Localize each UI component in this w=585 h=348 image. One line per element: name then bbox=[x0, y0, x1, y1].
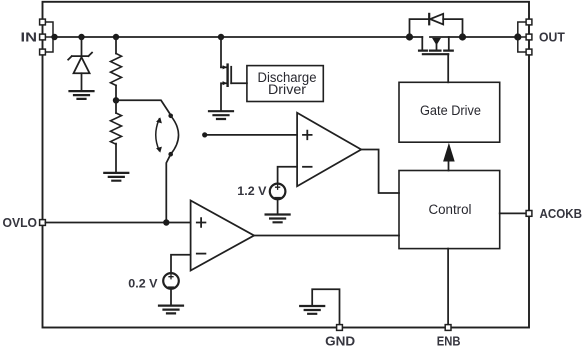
svg-text:ENB: ENB bbox=[437, 334, 461, 348]
label 0.2 V bbox=[128, 276, 158, 290]
svg-text:1.2 V: 1.2 V bbox=[237, 184, 267, 198]
arrow Control to Gate Drive bbox=[443, 143, 455, 171]
node divider top bbox=[113, 34, 119, 40]
svg-text:Driver: Driver bbox=[268, 82, 307, 97]
wire GND bbox=[312, 289, 339, 324]
resistor R2 (lower divider) bbox=[111, 100, 122, 172]
node pass FET drain bbox=[406, 33, 413, 40]
wire A2 inverting input bbox=[171, 255, 191, 273]
ground (discharge) bbox=[209, 111, 233, 119]
svg-text:ACOKB: ACOKB bbox=[540, 206, 583, 221]
svg-text:0.2 V: 0.2 V bbox=[128, 276, 158, 290]
svg-text:Control: Control bbox=[429, 202, 472, 217]
wire A1 noninverting input stub bbox=[202, 132, 297, 137]
block Control bbox=[399, 171, 500, 249]
pin GND bbox=[337, 325, 343, 331]
label OUT bbox=[539, 30, 565, 45]
wire discharge gate bbox=[231, 82, 247, 84]
svg-text:GND: GND bbox=[325, 334, 355, 348]
node divider tap bbox=[113, 97, 119, 103]
ground (GND pin) bbox=[300, 306, 324, 314]
node zener tap bbox=[78, 34, 84, 40]
resistor R1 (upper divider) bbox=[111, 37, 122, 100]
label ENB bbox=[437, 334, 461, 348]
op-amp A2 (lower comparator) bbox=[191, 201, 254, 271]
IC package boundary bbox=[43, 2, 530, 328]
pin ACOKB bbox=[526, 211, 532, 217]
wire ACOKB bbox=[500, 212, 526, 214]
node discharge drain bbox=[218, 34, 224, 40]
label IN bbox=[21, 30, 38, 45]
ground (zener) bbox=[70, 91, 94, 99]
pin IN (3 pads + bracket) bbox=[40, 19, 54, 55]
wire ENB bbox=[447, 249, 449, 325]
wire A1 output bbox=[361, 150, 399, 194]
svg-text:OVLO: OVLO bbox=[3, 215, 38, 230]
wire OVLO net bbox=[45, 222, 190, 224]
block Discharge Driver bbox=[247, 66, 323, 102]
node pass FET source bbox=[459, 33, 466, 40]
block Gate Drive bbox=[399, 82, 500, 142]
node OUT junction bbox=[514, 33, 521, 40]
svg-text:IN: IN bbox=[21, 30, 38, 45]
body diode of Q1 bbox=[410, 14, 463, 37]
zener diode bbox=[68, 37, 92, 91]
label 1.2 V bbox=[237, 184, 267, 198]
wire switch common down to OVLO net bbox=[166, 154, 170, 222]
switch (selector) bbox=[168, 114, 178, 157]
wire OUT rail bbox=[430, 36, 518, 38]
pin ENB bbox=[445, 325, 451, 331]
transistor Q1 (pass MOSFET) bbox=[419, 37, 453, 82]
pin OUT (3 pads + bracket) bbox=[518, 19, 532, 55]
ground (0.2 V) bbox=[159, 306, 183, 314]
wire A2 output bbox=[254, 235, 399, 237]
label OVLO bbox=[3, 215, 38, 230]
transistor Q2 (discharge NMOS) bbox=[221, 37, 231, 111]
voltage source 0.2 V bbox=[163, 273, 179, 305]
svg-text:OUT: OUT bbox=[539, 30, 565, 45]
wire divider tap to switch bbox=[116, 100, 171, 115]
voltage source 1.2 V bbox=[270, 184, 286, 214]
switch toggle arrow bbox=[156, 117, 162, 152]
wire A1 inverting input bbox=[278, 167, 298, 184]
node OVLO/switch junction bbox=[163, 219, 169, 225]
wire IN rail bbox=[54, 36, 422, 38]
ground (1.2 V) bbox=[266, 215, 290, 223]
svg-text:Gate Drive: Gate Drive bbox=[420, 103, 481, 118]
node IN junction bbox=[51, 34, 57, 40]
ground (divider) bbox=[104, 173, 128, 181]
label GND bbox=[325, 334, 355, 348]
pin OVLO bbox=[40, 220, 46, 226]
op-amp A1 (upper comparator) bbox=[297, 113, 361, 186]
label ACOKB bbox=[540, 206, 583, 221]
